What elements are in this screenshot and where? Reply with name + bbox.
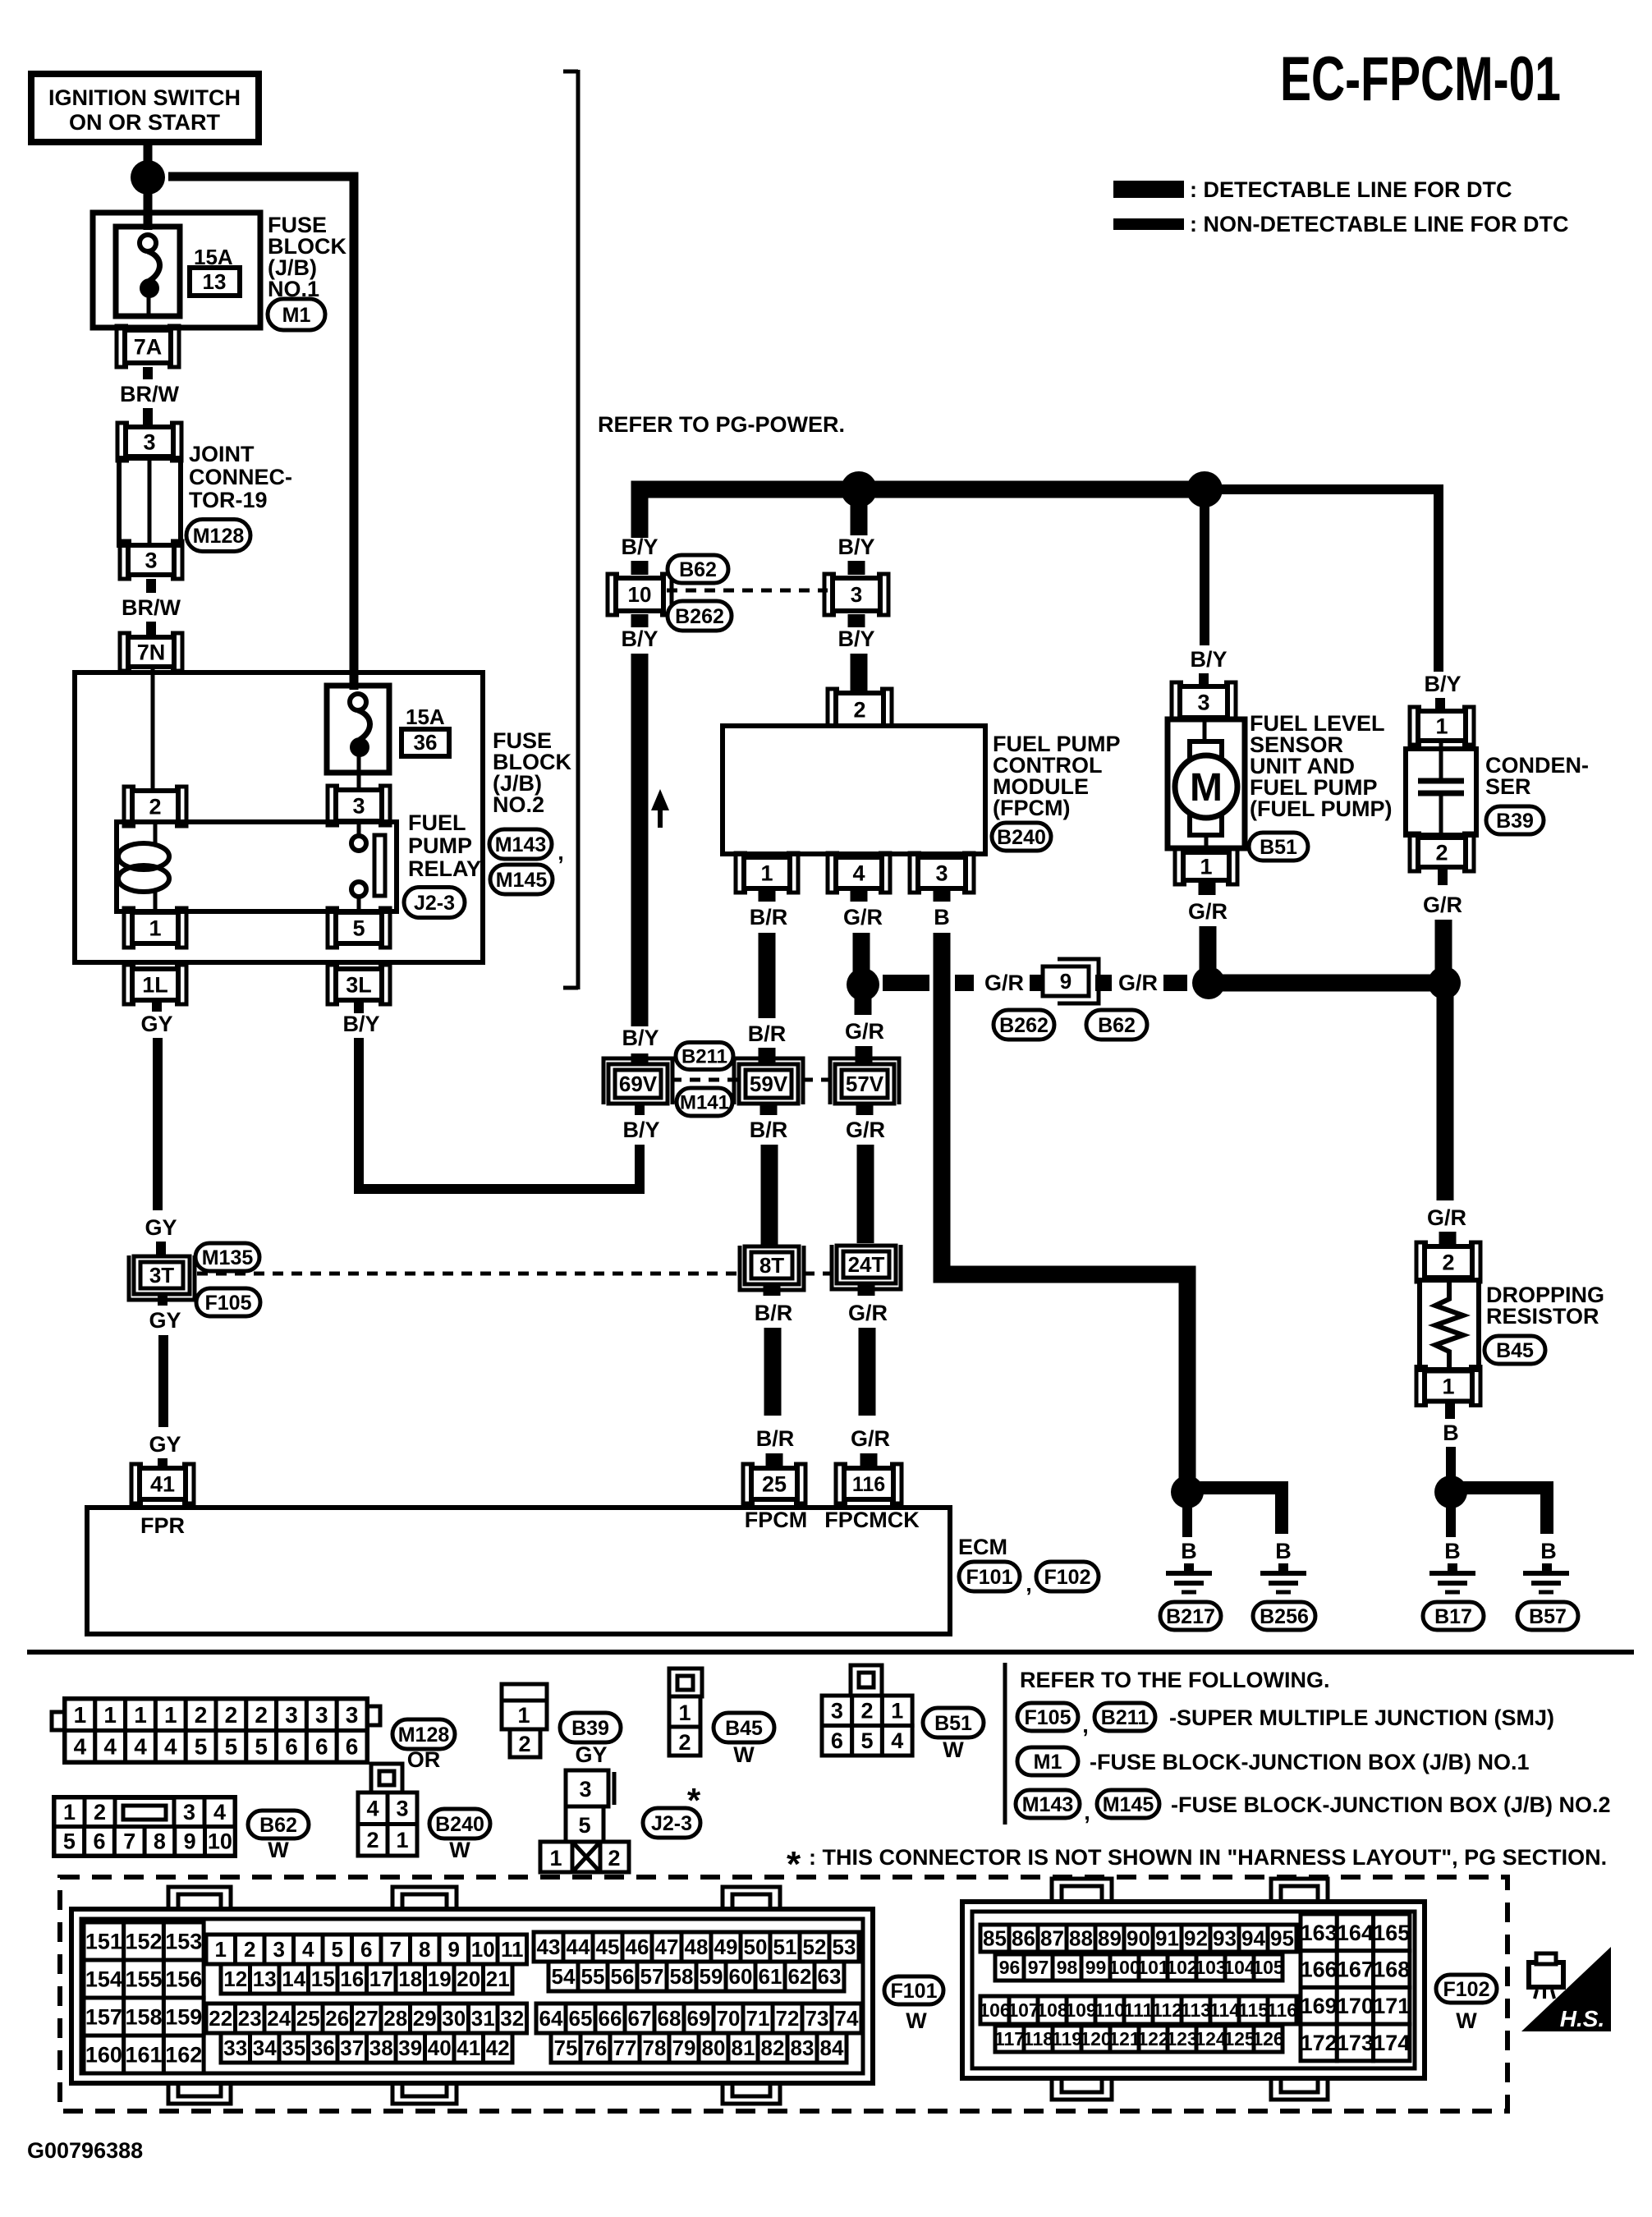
svg-text:5: 5 [195, 1734, 208, 1760]
svg-text:: NON-DETECTABLE LINE FOR DTC: : NON-DETECTABLE LINE FOR DTC [1190, 212, 1568, 236]
fuel pump relay box [117, 822, 397, 911]
oval B62 (bottom) [1086, 1010, 1147, 1040]
svg-text:W: W [449, 1838, 470, 1862]
sensor terminal 1 [1183, 852, 1229, 880]
svg-text:M1: M1 [1034, 1751, 1062, 1774]
oval B45 (layout) [714, 1713, 774, 1742]
svg-text:4: 4 [74, 1734, 87, 1760]
wire G/R down to 24T [857, 1145, 874, 1243]
svg-text:85: 85 [983, 1926, 1007, 1951]
svg-text:119: 119 [1052, 2028, 1082, 2049]
FPCM box [723, 726, 985, 854]
svg-text:1: 1 [678, 1701, 691, 1725]
svg-text:F105: F105 [1025, 1706, 1072, 1729]
svg-text:B/R: B/R [756, 1426, 795, 1451]
svg-text:6: 6 [360, 1937, 372, 1962]
svg-text:2: 2 [1442, 1250, 1454, 1274]
wire G/R dash b [955, 975, 974, 991]
svg-text:SER: SER [1485, 774, 1531, 799]
svg-text:B/R: B/R [748, 1021, 787, 1046]
svg-text:167: 167 [1337, 1958, 1374, 1982]
wire G/R to dot5 [1435, 920, 1452, 975]
refer block divider [1003, 1663, 1007, 1825]
svg-text:6: 6 [346, 1734, 359, 1760]
svg-text:163: 163 [1301, 1921, 1338, 1945]
svg-text:B: B [1444, 1539, 1461, 1563]
fuse block J/B no.2 box [75, 672, 483, 962]
wire B/R to connector 25 [766, 1453, 783, 1470]
connector 116 (ECM FPCMCK) [844, 1468, 893, 1499]
svg-text:-SUPER MULTIPLE JUNCTION (SMJ): -SUPER MULTIPLE JUNCTION (SMJ) [1169, 1705, 1554, 1730]
svg-text:2: 2 [195, 1702, 208, 1728]
svg-text:4: 4 [213, 1800, 226, 1825]
svg-text:162: 162 [165, 2042, 202, 2067]
svg-text:W: W [733, 1742, 755, 1767]
svg-text:103: 103 [1195, 1957, 1226, 1978]
F101 pin row 12-21 [221, 1964, 250, 1994]
svg-text:69: 69 [687, 2006, 711, 2031]
svg-text:M143: M143 [495, 833, 547, 856]
svg-text:GY: GY [149, 1432, 181, 1457]
connector face J2-3 [566, 1770, 608, 1806]
wire GY to connector 41 [158, 1458, 167, 1470]
svg-text:28: 28 [383, 2006, 407, 2031]
svg-text:B17: B17 [1434, 1605, 1472, 1628]
dropping resistor box [1420, 1280, 1479, 1370]
svg-text:B/Y: B/Y [1190, 647, 1227, 672]
svg-text:7A: 7A [134, 334, 163, 359]
svg-text:80: 80 [702, 2036, 726, 2060]
svg-text:5: 5 [255, 1734, 268, 1760]
svg-text:F105: F105 [205, 1292, 252, 1315]
svg-text:1: 1 [891, 1699, 903, 1724]
svg-text:6: 6 [285, 1734, 298, 1760]
svg-text:B: B [1181, 1539, 1197, 1563]
svg-text:25: 25 [762, 1471, 787, 1496]
svg-text:73: 73 [805, 2006, 829, 2031]
wire resistor to B label [1445, 1402, 1455, 1419]
svg-text:1: 1 [549, 1846, 562, 1870]
F101 pin row 33-42 [221, 2033, 250, 2063]
svg-text:J2-3: J2-3 [651, 1812, 692, 1835]
oval J2-3 [404, 888, 465, 918]
svg-text:B62: B62 [679, 558, 717, 581]
svg-text:113: 113 [1181, 1999, 1211, 2021]
svg-text:78: 78 [643, 2036, 667, 2060]
svg-text:4: 4 [852, 861, 865, 885]
connector 7A [125, 330, 171, 363]
svg-text:3: 3 [831, 1699, 843, 1724]
svg-text:2: 2 [244, 1937, 255, 1962]
connector 1L [132, 969, 178, 1000]
svg-text:77: 77 [613, 2036, 637, 2060]
svg-text:43: 43 [537, 1935, 561, 1959]
svg-text:19: 19 [428, 1967, 452, 1991]
connector 25 (ECM FPCM) [751, 1468, 797, 1499]
svg-text:2: 2 [861, 1699, 874, 1724]
oval B39 (layout) [560, 1713, 621, 1742]
svg-text:(FPCM): (FPCM) [993, 796, 1070, 820]
F101 pin row 43-53 [534, 1932, 563, 1962]
dashed SMJ line 8T to 24T [804, 1272, 834, 1276]
svg-text:159: 159 [165, 2004, 202, 2029]
connector 69V (SMJ) [608, 1064, 668, 1104]
svg-text:FPCM: FPCM [745, 1508, 808, 1532]
wire G/R dash e [1163, 975, 1187, 991]
svg-text:13: 13 [203, 269, 227, 294]
connector 24T (SMJ) [837, 1246, 896, 1283]
svg-text:15: 15 [311, 1967, 335, 1991]
wire B/Y to sensor terminal 3 [1199, 673, 1209, 690]
svg-text:172: 172 [1301, 2031, 1338, 2055]
svg-text:5: 5 [63, 1829, 76, 1854]
node bus junction dot 2 [1186, 471, 1223, 507]
svg-text:FUEL: FUEL [408, 810, 466, 835]
connector face B39 [502, 1684, 547, 1701]
node ground junction dot (B217/B256) [1171, 1476, 1204, 1508]
svg-text:G/R: G/R [848, 1301, 888, 1325]
wire GY to 3T [156, 1242, 166, 1256]
svg-text:169: 169 [1301, 1994, 1338, 2018]
wire FPCM pin3 stub [934, 888, 951, 902]
svg-text:: DETECTABLE LINE FOR DTC: : DETECTABLE LINE FOR DTC [1190, 177, 1512, 202]
svg-text:26: 26 [325, 2006, 349, 2031]
wire B to ground dot (B17/B57) [1446, 1447, 1456, 1478]
oval M145 (refer) [1097, 1790, 1159, 1818]
svg-text:3: 3 [851, 582, 862, 607]
svg-text:47: 47 [655, 1935, 679, 1959]
fuse number box 13 [190, 268, 240, 296]
oval F101 (ECM) [959, 1562, 1020, 1591]
svg-text:41: 41 [457, 2036, 480, 2060]
svg-text:G/R: G/R [1118, 971, 1158, 995]
svg-text:4: 4 [366, 1797, 379, 1821]
dropping resistor terminal 1 [1425, 1371, 1472, 1402]
svg-text:3: 3 [315, 1702, 328, 1728]
oval B217 [1160, 1602, 1221, 1630]
svg-text:70: 70 [717, 2006, 741, 2031]
wire G/R to resistor terminal 2 [1439, 1232, 1457, 1250]
wire 1L to GY [152, 1000, 162, 1012]
svg-text:8T: 8T [759, 1253, 784, 1278]
svg-text:166: 166 [1301, 1958, 1338, 1982]
oval M141 [677, 1088, 732, 1116]
wire GY to GY [153, 1038, 163, 1210]
svg-text:1: 1 [164, 1702, 177, 1728]
svg-text:23: 23 [238, 2006, 262, 2031]
fuse 36 symbol box [327, 686, 389, 773]
wire dot to B256 branch [1195, 1488, 1282, 1534]
svg-text:67: 67 [628, 2006, 652, 2031]
fuse 13 symbol [140, 235, 156, 251]
svg-text:PUMP: PUMP [408, 833, 472, 858]
wire 69V to relay 3L (elbow) [359, 1038, 640, 1189]
svg-text:96: 96 [999, 1957, 1021, 1978]
connector 3 (joint connector top) [126, 427, 173, 457]
node G/R junction dot 5 [1428, 966, 1461, 999]
svg-text:B/Y: B/Y [1424, 672, 1461, 696]
svg-text:64: 64 [539, 2006, 563, 2031]
fuse number box 36 [402, 729, 449, 756]
node ground junction dot (B17/B57) [1434, 1476, 1467, 1508]
svg-text:68: 68 [658, 2006, 681, 2031]
connector 9 [1043, 966, 1089, 996]
svg-text:97: 97 [1028, 1957, 1049, 1978]
svg-text:B211: B211 [681, 1045, 727, 1067]
svg-text:9: 9 [1060, 969, 1072, 994]
FPCM terminal 3 [918, 857, 966, 888]
svg-text:4: 4 [164, 1734, 177, 1760]
svg-text:42: 42 [486, 2036, 510, 2060]
svg-text:5: 5 [332, 1937, 343, 1962]
svg-text:4: 4 [891, 1728, 903, 1753]
relay coil terminal 1 [132, 912, 178, 943]
svg-text:7N: 7N [137, 640, 166, 664]
svg-text:3: 3 [396, 1797, 408, 1821]
oval M135 [195, 1243, 259, 1271]
condenser box [1406, 749, 1476, 835]
svg-text:B/Y: B/Y [837, 627, 874, 651]
svg-text:63: 63 [818, 1964, 842, 1989]
connector 7N [128, 637, 174, 667]
svg-text:G/R: G/R [851, 1426, 890, 1451]
F101 pin row 54-63 [548, 1962, 578, 1991]
svg-text:3L: 3L [346, 972, 372, 997]
svg-text:ECM: ECM [958, 1535, 1007, 1559]
svg-text:12: 12 [223, 1967, 247, 1991]
svg-text:1: 1 [1435, 714, 1448, 738]
svg-text:1: 1 [1442, 1374, 1454, 1398]
svg-text:117: 117 [994, 2028, 1025, 2049]
connector 8T (SMJ) [745, 1246, 799, 1284]
svg-text:2: 2 [225, 1702, 238, 1728]
oval M145 [490, 865, 553, 894]
svg-text:121: 121 [1108, 2028, 1140, 2049]
oval B62 (layout) [248, 1811, 309, 1838]
svg-text:29: 29 [413, 2006, 437, 2031]
svg-text:B262: B262 [675, 605, 724, 628]
connector 3T (SMJ) [134, 1256, 190, 1294]
svg-text:58: 58 [670, 1964, 694, 1989]
svg-text:156: 156 [165, 1967, 202, 1991]
svg-text:38: 38 [369, 2036, 393, 2060]
wire G/R to 57V [856, 1046, 873, 1064]
svg-text:2: 2 [149, 794, 161, 819]
svg-text:JOINT: JOINT [189, 442, 255, 466]
svg-text:2: 2 [518, 1732, 530, 1756]
svg-text:B/R: B/R [750, 905, 788, 929]
wire B/Y bus (detectable) [640, 489, 1205, 538]
svg-text:11: 11 [501, 1937, 524, 1962]
wire B to ground B256 [1278, 1563, 1288, 1572]
svg-text:116: 116 [1267, 1999, 1297, 2021]
F102 pin row 117-126 [995, 2026, 1024, 2052]
svg-text:155: 155 [126, 1967, 163, 1991]
svg-text:4: 4 [134, 1734, 147, 1760]
svg-text:BR/W: BR/W [120, 382, 179, 406]
svg-text:6: 6 [315, 1734, 328, 1760]
wire dot2 to B/Y label (sensor) [1200, 498, 1209, 645]
joint connector-19 box [119, 458, 181, 545]
wire FPCM pin4 stub [851, 888, 868, 902]
svg-text:120: 120 [1080, 2028, 1111, 2049]
connector 3 (joint connector bottom) [128, 545, 174, 575]
svg-text:M145: M145 [1103, 1793, 1154, 1816]
wire B/Y to connector 10 [631, 561, 649, 575]
svg-text:115: 115 [1238, 1999, 1269, 2021]
svg-text:65: 65 [569, 2006, 593, 2031]
svg-text:CONNEC-: CONNEC- [189, 465, 292, 489]
svg-text:93: 93 [1213, 1926, 1237, 1951]
svg-text:55: 55 [581, 1964, 605, 1989]
connector shell F102 [962, 1902, 1425, 2078]
node A junction dot [131, 160, 165, 195]
condenser symbol [1439, 741, 1443, 779]
oval M128 (layout) [392, 1719, 455, 1749]
svg-text:J2-3: J2-3 [414, 892, 455, 915]
legend non-detectable line bar [1113, 218, 1184, 230]
svg-text:106: 106 [979, 1999, 1010, 2021]
svg-text:107: 107 [1007, 1999, 1039, 2021]
svg-text:GY: GY [149, 1308, 181, 1333]
svg-text:W: W [906, 2008, 927, 2033]
wire 3L stub [354, 1000, 364, 1013]
wire 57V to G/R label [856, 1104, 874, 1115]
svg-text:G00796388: G00796388 [27, 2138, 143, 2163]
oval B262 (top) [668, 601, 732, 631]
oval F105 (refer) [1017, 1703, 1078, 1731]
svg-text:108: 108 [1036, 1999, 1068, 2021]
svg-text:170: 170 [1337, 1994, 1374, 2018]
oval B262 (bottom) [993, 1010, 1054, 1040]
svg-text:B/Y: B/Y [621, 535, 658, 559]
svg-text:B240: B240 [435, 1813, 484, 1836]
svg-text:86: 86 [1012, 1926, 1035, 1951]
svg-text:B/R: B/R [750, 1118, 788, 1142]
F101 pin row 22-32 [206, 2004, 236, 2033]
svg-text:14: 14 [282, 1967, 305, 1991]
svg-text:1: 1 [134, 1702, 147, 1728]
svg-text:3: 3 [183, 1800, 195, 1825]
relay switch terminal 3 [336, 790, 382, 821]
svg-text:F101: F101 [966, 1566, 1013, 1589]
svg-text:59: 59 [700, 1964, 723, 1989]
dashed layout box [60, 1877, 1507, 2111]
fuse block J/B no.1 box [93, 213, 260, 328]
svg-text:5: 5 [352, 916, 365, 940]
ground symbol B256 [1260, 1571, 1306, 1576]
connector face B45 [669, 1668, 702, 1696]
svg-text:36: 36 [414, 730, 438, 755]
svg-text:B: B [934, 905, 950, 929]
svg-text:124: 124 [1195, 2028, 1227, 2049]
svg-text:71: 71 [746, 2006, 770, 2031]
svg-text:5: 5 [225, 1734, 238, 1760]
svg-text:126: 126 [1252, 2028, 1283, 2049]
svg-text:3: 3 [935, 861, 948, 885]
connector 3 (B262) [833, 578, 880, 611]
wire B/R down to 8T [761, 1145, 778, 1246]
connector 57V (SMJ) [835, 1064, 894, 1104]
fuse 36 symbol [350, 694, 366, 710]
svg-text:54: 54 [552, 1964, 576, 1989]
svg-text:174: 174 [1373, 2031, 1410, 2055]
connector face B62 [54, 1797, 235, 1856]
svg-text:164: 164 [1337, 1921, 1374, 1945]
FPCM terminal 4 [836, 857, 882, 888]
dashed SMJ line 69V to 59V [671, 1078, 741, 1082]
PG-POWER bracket line [576, 70, 580, 989]
svg-text:B: B [1443, 1421, 1459, 1445]
svg-text:REFER TO PG-POWER.: REFER TO PG-POWER. [598, 412, 845, 437]
svg-text:B240: B240 [997, 826, 1046, 849]
svg-text:1: 1 [1200, 854, 1212, 879]
condenser terminal 1 [1418, 711, 1466, 741]
F101 pin row 1-11 [206, 1935, 236, 1964]
F101 pin row 64-74 [536, 2004, 566, 2033]
svg-text:B: B [1540, 1539, 1557, 1563]
sensor terminal 3 [1180, 686, 1228, 718]
connector face B51 [851, 1665, 882, 1696]
svg-text:35: 35 [282, 2036, 305, 2060]
svg-text:39: 39 [398, 2036, 422, 2060]
svg-text:2: 2 [94, 1800, 106, 1825]
svg-text:B217: B217 [1166, 1605, 1215, 1628]
FPCM terminal 1 [744, 857, 790, 888]
svg-text:60: 60 [729, 1964, 753, 1989]
ground symbol B17 [1429, 1571, 1475, 1576]
oval B240 (layout) [429, 1809, 490, 1838]
svg-text:1L: 1L [142, 972, 168, 997]
wire 3 to B/Y label [848, 614, 865, 627]
svg-text:B57: B57 [1529, 1605, 1567, 1628]
wire B down right down to ground dot [942, 933, 1187, 1478]
svg-text:79: 79 [672, 2036, 696, 2060]
dashed SMJ line 59V to 57V [802, 1078, 839, 1082]
svg-text:7: 7 [390, 1937, 402, 1962]
svg-text:51: 51 [773, 1935, 797, 1959]
svg-text:3: 3 [1197, 690, 1209, 714]
svg-text:173: 173 [1337, 2031, 1374, 2055]
oval B17 [1423, 1602, 1484, 1630]
svg-text:G/R: G/R [846, 1118, 885, 1142]
node bus junction dot 1 [841, 471, 877, 507]
svg-text:ON OR START: ON OR START [69, 110, 220, 135]
oval B62 (top) [668, 555, 728, 583]
svg-text:32: 32 [500, 2006, 524, 2031]
svg-text:48: 48 [685, 1935, 709, 1959]
svg-text:160: 160 [85, 2042, 122, 2067]
wire dot to B57 branch [1459, 1488, 1547, 1534]
svg-text:17: 17 [369, 1967, 393, 1991]
svg-text:B256: B256 [1260, 1605, 1309, 1628]
svg-text:74: 74 [835, 2006, 859, 2031]
svg-text:171: 171 [1373, 1994, 1410, 2018]
svg-text:3: 3 [285, 1702, 298, 1728]
svg-text:62: 62 [788, 1964, 812, 1989]
svg-text:91: 91 [1155, 1926, 1179, 1951]
H.S. logo [1521, 1947, 1611, 2031]
svg-text:F102: F102 [1044, 1566, 1091, 1589]
fuel pump motor internals [1203, 722, 1207, 744]
svg-text:33: 33 [223, 2036, 247, 2060]
wire B to ground B17 [1448, 1563, 1457, 1572]
F102 pin grid 163-174 [1301, 1914, 1337, 1951]
svg-text:B51: B51 [1260, 836, 1297, 859]
svg-text:100: 100 [1108, 1957, 1140, 1978]
svg-text:94: 94 [1241, 1926, 1265, 1951]
svg-text:151: 151 [85, 1929, 122, 1953]
